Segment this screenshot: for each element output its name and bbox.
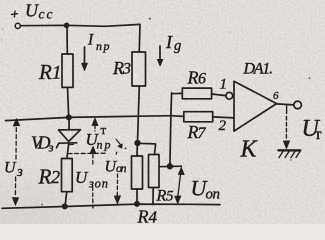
junction dot feeder/R5 tap	[168, 164, 173, 169]
op-amp DA1 triangle	[234, 81, 277, 131]
svg-text:4: 4	[149, 208, 158, 225]
svg-text:U: U	[25, 1, 39, 21]
wire: bottom rail	[2, 204, 220, 208]
dimension Uзоп	[90, 146, 96, 208]
scan speckles	[1, 18, 311, 206]
wire: R5 bottom	[152, 188, 154, 205]
output terminal circle	[294, 101, 302, 109]
svg-text:т: т	[315, 126, 322, 143]
dimension U'оп dashed	[114, 174, 120, 204]
wire: R3 bottom	[138, 86, 140, 142]
wire: R6 right to op-amp input 1	[212, 94, 226, 96]
node junction dot on top rail	[65, 23, 69, 27]
wire: op-amp output	[277, 104, 294, 105]
svg-text:зоп: зоп	[88, 177, 108, 191]
dimension Uоп	[175, 167, 185, 203]
svg-text:R: R	[38, 60, 52, 84]
svg-text:K: K	[240, 137, 259, 163]
svg-text:R: R	[137, 207, 149, 225]
resistor R2	[62, 159, 73, 192]
svg-text:оп: оп	[206, 187, 221, 203]
wire: R7 left	[173, 115, 184, 118]
svg-text:т: т	[101, 122, 107, 137]
wire: top rail from terminal to R3 drop	[21, 24, 141, 52]
wire: node B jog to R5 top	[138, 143, 156, 154]
op-amp U1 input inversion circle	[226, 92, 233, 99]
dashed leader from zener cathode	[68, 152, 106, 154]
node B junction dot	[135, 141, 140, 146]
svg-text:R: R	[156, 188, 167, 205]
svg-text:2: 2	[51, 167, 60, 187]
wire: R4 top	[136, 143, 138, 156]
resistor R4	[132, 156, 143, 189]
svg-text:R: R	[38, 165, 52, 189]
svg-text:R: R	[187, 68, 199, 88]
svg-text:5: 5	[166, 189, 174, 205]
svg-text:6: 6	[273, 90, 279, 102]
svg-text:U: U	[4, 160, 17, 177]
svg-text:2: 2	[219, 118, 227, 134]
svg-text:6: 6	[198, 71, 206, 88]
zener diode VD3	[57, 120, 81, 159]
resistor R7	[184, 112, 213, 122]
current arrow Iпр	[82, 47, 88, 71]
wire: R1 top	[66, 26, 68, 55]
svg-text:3: 3	[122, 61, 131, 78]
wire: R6 left	[172, 92, 183, 94]
node junction dot (R1/zener)	[67, 115, 71, 119]
wire: R4 bottom	[136, 189, 138, 204]
svg-text:7: 7	[198, 125, 207, 142]
plus sign of Ucc	[12, 11, 18, 17]
svg-text:I: I	[165, 32, 173, 52]
junction dot bottom rail (R4)	[135, 202, 139, 206]
svg-text:з: з	[16, 164, 23, 180]
terminal circle Ucc	[15, 23, 20, 28]
resistor R3	[132, 52, 146, 86]
wire: node A rail	[6, 116, 173, 121]
svg-text:U: U	[75, 168, 89, 187]
svg-text:DA1.: DA1.	[243, 61, 274, 78]
svg-text:оп: оп	[116, 161, 127, 175]
wire: R1 bottom	[68, 87, 69, 117]
Uт measurement stub and dashed arrow	[283, 105, 289, 148]
junction dot bottom rail (R2)	[63, 204, 67, 208]
svg-text:g: g	[174, 38, 181, 54]
resistor R1	[62, 54, 73, 87]
svg-text:I: I	[87, 32, 94, 49]
svg-text:пр: пр	[96, 39, 110, 53]
dimension Uпр (top arrow)	[92, 118, 98, 131]
wire: R7 right to op-amp input 2	[213, 117, 234, 118]
svg-text:1: 1	[220, 77, 228, 93]
wire: feeder to R6/R7	[170, 93, 172, 166]
dimension Uз (left)	[12, 119, 19, 206]
svg-text:1: 1	[52, 63, 62, 84]
svg-text:з: з	[48, 140, 54, 155]
current arrow Iд	[157, 46, 163, 66]
wire: R5 tap horizontal	[159, 165, 181, 168]
wire: R2 bottom	[65, 192, 67, 207]
dimension Uпр (slanted lower arrow)	[116, 139, 126, 149]
resistor R6	[182, 88, 211, 99]
ground symbol	[278, 150, 300, 157]
resistor R5	[149, 155, 160, 188]
